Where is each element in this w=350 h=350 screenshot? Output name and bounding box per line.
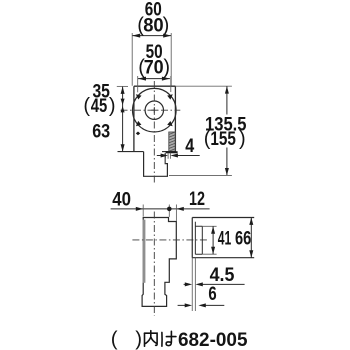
svg-text:(: (	[83, 95, 90, 117]
front view top edge	[134, 85, 176, 87]
svg-text:6: 6	[208, 283, 216, 305]
left dimension line 35(45)/63	[117, 86, 128, 151]
front view bottom edge left part with 63 extension	[118, 151, 144, 153]
svg-text:): )	[239, 128, 246, 150]
horizontal centerline	[121, 109, 181, 111]
side view faucet body outline	[142, 218, 176, 307]
extension top left	[117, 85, 128, 87]
dimension 4.5	[184, 283, 245, 285]
svg-text:682-005: 682-005	[178, 329, 248, 350]
side view 40/12 dimension row	[111, 205, 210, 221]
screw hatched bar	[166, 132, 178, 153]
arrowhead NE	[167, 94, 173, 99]
center cross mark	[151, 107, 157, 113]
svg-text:(: (	[111, 327, 118, 350]
41 extension lines	[202, 226, 216, 254]
screw T-foot	[166, 151, 178, 153]
dimension 66	[250, 218, 252, 258]
svg-text:): )	[163, 57, 170, 79]
svg-text:): )	[135, 327, 142, 350]
dimension 60 (80)	[132, 33, 171, 86]
arrowhead SE	[167, 121, 173, 126]
extension lines below bracket	[192, 258, 195, 311]
svg-text:): )	[109, 95, 116, 117]
svg-text:12: 12	[189, 188, 205, 210]
svg-text:): )	[163, 15, 170, 37]
dimension 41	[212, 226, 214, 254]
svg-text:45: 45	[91, 95, 108, 117]
kanji 内 drawn	[145, 331, 158, 347]
front view bottom edge right part	[162, 151, 175, 153]
gasket grey band side view	[143, 220, 146, 283]
svg-text:80: 80	[143, 15, 164, 37]
arrowheads on flange circle NW	[136, 94, 173, 135]
bracket piece side view	[192, 218, 254, 312]
dimension 6	[178, 304, 225, 306]
svg-text:4: 4	[185, 135, 194, 157]
svg-text:66: 66	[235, 227, 251, 249]
flange circle	[133, 88, 177, 132]
side view horizontal centerline	[132, 239, 207, 241]
vertical centerline front view	[153, 81, 155, 183]
front view body rectangle	[134, 86, 176, 151]
dimension 50 (70)	[138, 76, 171, 92]
svg-text:40: 40	[112, 189, 131, 211]
top extension line to 135.5 dim	[175, 85, 232, 87]
side view vertical centerline	[153, 212, 155, 317]
svg-text:70: 70	[144, 57, 164, 79]
arrowhead SW	[136, 121, 142, 126]
small diamond marker left edge	[136, 132, 140, 136]
svg-text:41: 41	[218, 227, 232, 249]
kana は drawn	[162, 331, 176, 346]
dimension 4 (screw)	[157, 153, 200, 164]
inner bore circle	[145, 101, 163, 119]
svg-text:155: 155	[210, 128, 236, 150]
svg-text:63: 63	[92, 120, 110, 142]
spout outline	[144, 152, 168, 177]
dimension 135.5 (155)	[169, 86, 232, 175]
